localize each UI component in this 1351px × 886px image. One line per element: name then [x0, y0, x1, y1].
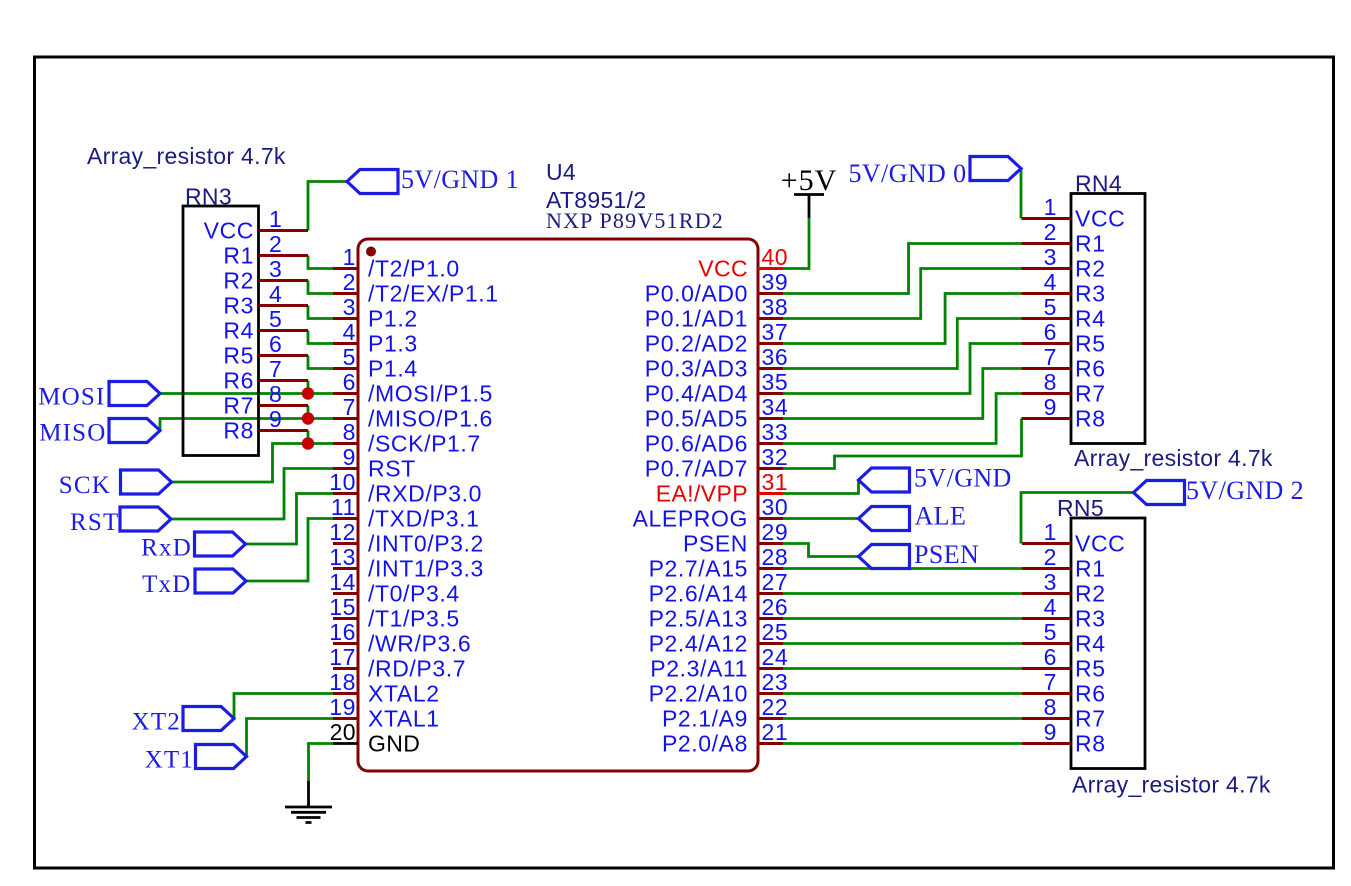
svg-text:XT1: XT1	[145, 747, 194, 774]
RN3 pin 9 (R8)	[223, 406, 308, 444]
U4 pin 28 (P2.7/A15)	[649, 544, 789, 582]
U4 pin 16 (/WR/P3.6)	[329, 619, 471, 657]
svg-text:4: 4	[269, 281, 282, 307]
svg-text:5V/GND: 5V/GND	[914, 464, 1012, 493]
U4 pin 32 (P0.7/AD7)	[645, 444, 789, 482]
RN4 pin 4 (R3)	[1022, 269, 1106, 307]
svg-text:4: 4	[343, 319, 356, 345]
svg-text:34: 34	[762, 394, 789, 420]
svg-text:P0.4/AD4: P0.4/AD4	[645, 381, 748, 407]
flag RST	[70, 507, 171, 536]
U4 pin 20 (GND)	[330, 719, 421, 757]
U4 pin 25 (P2.4/A12)	[649, 619, 789, 657]
svg-text:RxD: RxD	[141, 535, 192, 562]
svg-text:3: 3	[343, 294, 356, 320]
RN3 pin 7 (R6)	[223, 356, 308, 394]
svg-text:19: 19	[329, 694, 356, 720]
RN3 pin 5 (R4)	[223, 306, 308, 344]
svg-text:/T2/EX/P1.1: /T2/EX/P1.1	[368, 281, 499, 307]
svg-text:/MOSI/P1.5: /MOSI/P1.5	[368, 381, 493, 407]
svg-text:/RD/P3.7: /RD/P3.7	[368, 656, 466, 682]
svg-text:P2.4/A12: P2.4/A12	[649, 631, 748, 657]
U4 pin 14 (/T0/P3.4)	[329, 569, 460, 607]
wire XT2 flag to U4 pin 18	[234, 694, 333, 719]
svg-text:8: 8	[1044, 694, 1057, 720]
svg-text:9: 9	[1044, 394, 1057, 420]
U4 pin 4 (P1.3)	[333, 319, 418, 357]
flag 5V/GND 0	[848, 157, 1021, 189]
wire ground lead (black)	[307, 781, 310, 806]
svg-text:29: 29	[762, 519, 789, 545]
svg-text:RN3: RN3	[185, 184, 232, 210]
svg-text:4: 4	[1044, 269, 1057, 295]
flag XT1	[145, 745, 247, 774]
svg-text:R3: R3	[1075, 281, 1106, 307]
svg-text:5V/GND 0: 5V/GND 0	[848, 159, 966, 188]
svg-text:R1: R1	[223, 243, 254, 269]
svg-text:R2: R2	[223, 268, 254, 294]
svg-text:P2.3/A11: P2.3/A11	[650, 656, 748, 682]
svg-text:40: 40	[762, 244, 788, 270]
svg-text:28: 28	[762, 544, 789, 570]
svg-text:VCC: VCC	[698, 256, 748, 282]
svg-text:RST: RST	[70, 509, 119, 536]
wire RN3 pin 8 to U4 pin 7	[308, 406, 333, 419]
svg-text:/MISO/P1.6: /MISO/P1.6	[368, 406, 493, 432]
RN4 pin 5 (R4)	[1022, 294, 1106, 332]
svg-text:P2.2/A10: P2.2/A10	[649, 681, 748, 707]
U4 pin 10 (/RXD/P3.0)	[329, 469, 482, 507]
U4 pin 13 (/INT1/P3.3)	[329, 544, 484, 582]
U4 pin 37 (P0.2/AD2)	[645, 319, 789, 357]
svg-text:VCC: VCC	[204, 218, 254, 244]
U4 pin 22 (P2.1/A9)	[662, 694, 788, 732]
svg-text:27: 27	[762, 569, 789, 595]
wire U4 pin 24 to RN5 pin 6	[783, 667, 1022, 670]
wire RST flag to U4 pin 9	[171, 469, 333, 520]
svg-text:P1.3: P1.3	[368, 331, 418, 357]
wire U4 pin 34 to RN4 pin 7	[783, 369, 1022, 419]
svg-text:R2: R2	[1075, 581, 1106, 607]
svg-text:R5: R5	[223, 343, 254, 369]
svg-text:25: 25	[762, 619, 789, 645]
svg-text:NXP P89V51RD2: NXP P89V51RD2	[546, 208, 724, 233]
wire U4 pin 38 to RN4 pin 3	[783, 269, 1022, 319]
svg-text:R7: R7	[223, 393, 254, 419]
wire RN3 pin 2 to U4 pin 1	[308, 256, 333, 269]
wire RN3 pin 5 to U4 pin 4	[308, 331, 333, 344]
power symbol +5V	[781, 164, 838, 218]
flag PSEN	[859, 540, 980, 569]
U4 pin 26 (P2.5/A13)	[649, 594, 789, 632]
svg-text:R1: R1	[1075, 231, 1106, 257]
wire flag 5V/GND 0 to RN4 pin 1	[1020, 169, 1023, 219]
flag MOSI	[38, 382, 160, 411]
svg-text:14: 14	[329, 569, 356, 595]
svg-text:EA!/VPP: EA!/VPP	[656, 481, 748, 507]
U4 pin 29 (PSEN)	[683, 519, 788, 557]
svg-text:R8: R8	[1075, 731, 1106, 757]
wire RN3 pin 6 to U4 pin 5	[308, 356, 333, 369]
RN5 pin 7 (R6)	[1022, 669, 1106, 707]
svg-text:XT2: XT2	[132, 709, 181, 736]
svg-text:31: 31	[762, 469, 788, 495]
svg-text:4: 4	[1044, 594, 1057, 620]
U4 pin 1 (/T2/P1.0)	[333, 244, 460, 282]
RN5 pin 5 (R4)	[1022, 619, 1106, 657]
svg-text:21: 21	[762, 719, 789, 745]
svg-text:/RXD/P3.0: /RXD/P3.0	[368, 481, 482, 507]
flag SCK	[59, 470, 172, 499]
wire flag 5V/GND 2 to RN5 pin 1	[1021, 493, 1134, 544]
RN5 pin 4 (R3)	[1022, 594, 1106, 632]
svg-text:32: 32	[762, 444, 789, 470]
svg-text:/T2/P1.0: /T2/P1.0	[368, 256, 460, 282]
svg-text:15: 15	[329, 594, 356, 620]
wire U4 pin 32 to RN4 pin 9	[783, 419, 1022, 469]
svg-text:/INT0/P3.2: /INT0/P3.2	[368, 531, 484, 557]
wire RxD flag to U4 pin 10	[246, 494, 334, 545]
wire RN3 pin 4 to U4 pin 3	[308, 306, 333, 319]
svg-text:/SCK/P1.7: /SCK/P1.7	[368, 431, 481, 457]
U4 pin 24 (P2.3/A11)	[650, 644, 788, 682]
svg-text:R6: R6	[1075, 681, 1106, 707]
svg-text:26: 26	[762, 594, 789, 620]
svg-text:R7: R7	[1075, 706, 1106, 732]
wire U4 pin 33 to RN4 pin 8	[783, 394, 1022, 444]
RN4 pin 1 (VCC)	[1022, 194, 1126, 232]
svg-text:XTAL2: XTAL2	[368, 681, 440, 707]
RN4 pin 6 (R5)	[1022, 319, 1106, 357]
U4 pin 11 (/TXD/P3.1)	[331, 494, 480, 532]
U4 pin 17 (/RD/P3.7)	[329, 644, 466, 682]
svg-text:P1.4: P1.4	[368, 356, 418, 382]
U4 pin 23 (P2.2/A10)	[649, 669, 789, 707]
U4 pin 31 (EA!/VPP)	[656, 469, 788, 507]
svg-text:1: 1	[269, 206, 282, 232]
wire SCK flag to node at U4 pin 8	[172, 444, 309, 483]
svg-text:PSEN: PSEN	[683, 531, 748, 557]
svg-text:TxD: TxD	[142, 571, 191, 598]
svg-text:GND: GND	[368, 731, 420, 757]
wire MISO flag to node at U4 pin 7	[160, 419, 308, 431]
wire RN3 pin 7 to U4 pin 6	[308, 381, 333, 394]
svg-text:ALEPROG: ALEPROG	[633, 506, 748, 532]
svg-text:6: 6	[343, 369, 356, 395]
wire U4 pin 29 to flag PSEN	[782, 544, 859, 557]
wire U4 pin 25 to RN5 pin 5	[783, 642, 1022, 645]
svg-text:7: 7	[269, 356, 282, 382]
RN5 pin 2 (R1)	[1022, 544, 1106, 582]
svg-text:39: 39	[762, 269, 789, 295]
svg-text:P1.2: P1.2	[368, 306, 418, 332]
U4 pin 15 (/T1/P3.5)	[329, 594, 460, 632]
svg-text:9: 9	[1044, 719, 1057, 745]
RN5 pin 3 (R2)	[1022, 569, 1106, 607]
junction node MISO	[302, 412, 314, 424]
resistor network RN4 body	[1071, 194, 1145, 444]
svg-text:RST: RST	[368, 456, 416, 482]
svg-text:/TXD/P3.1: /TXD/P3.1	[368, 506, 480, 532]
svg-text:MOSI: MOSI	[38, 384, 105, 411]
svg-text:P0.2/AD2: P0.2/AD2	[645, 331, 748, 357]
wire U4 pin 27 to RN5 pin 3	[783, 592, 1022, 595]
svg-text:/T1/P3.5: /T1/P3.5	[368, 606, 460, 632]
wire U4 pin 37 to RN4 pin 4	[783, 294, 1022, 344]
svg-text:U4: U4	[546, 159, 576, 185]
svg-text:R1: R1	[1075, 556, 1106, 582]
svg-text:+5V: +5V	[781, 164, 838, 197]
svg-text:10: 10	[329, 469, 356, 495]
svg-text:R8: R8	[223, 418, 254, 444]
svg-text:XTAL1: XTAL1	[368, 706, 440, 732]
U4 pin 33 (P0.6/AD6)	[645, 419, 789, 457]
RN3 pin 1 (VCC)	[204, 206, 308, 244]
svg-text:ALE: ALE	[915, 502, 967, 531]
wire RN3 pin 9 to U4 pin 8	[308, 431, 333, 444]
svg-text:2: 2	[1044, 219, 1057, 245]
svg-text:R5: R5	[1075, 331, 1106, 357]
svg-text:R4: R4	[223, 318, 254, 344]
svg-text:PSEN: PSEN	[914, 540, 979, 569]
svg-text:11: 11	[331, 494, 356, 520]
svg-text:12: 12	[329, 519, 356, 545]
RN5 pin 6 (R5)	[1022, 644, 1106, 682]
svg-text:P0.7/AD7: P0.7/AD7	[645, 456, 748, 482]
svg-text:Array_resistor 4.7k: Array_resistor 4.7k	[1072, 772, 1271, 798]
svg-text:5: 5	[269, 306, 282, 332]
svg-text:8: 8	[1044, 369, 1057, 395]
flag ALE	[859, 502, 967, 531]
svg-text:1: 1	[1044, 519, 1057, 545]
svg-text:R3: R3	[223, 293, 254, 319]
svg-text:5V/GND 1: 5V/GND 1	[401, 165, 519, 194]
svg-text:P2.0/A8: P2.0/A8	[662, 731, 748, 757]
svg-text:R4: R4	[1075, 631, 1106, 657]
U4 pin 36 (P0.3/AD3)	[645, 344, 789, 382]
U4 pin 8 (/SCK/P1.7)	[333, 419, 481, 457]
svg-text:SCK: SCK	[59, 472, 111, 499]
svg-text:3: 3	[1044, 244, 1057, 270]
svg-text:/INT1/P3.3: /INT1/P3.3	[368, 556, 484, 582]
svg-text:2: 2	[1044, 544, 1057, 570]
junction node SCK	[302, 437, 314, 449]
RN3 pin 3 (R2)	[223, 256, 308, 294]
U4 pin 3 (P1.2)	[333, 294, 418, 332]
U4 pin 40 (VCC)	[698, 244, 788, 282]
svg-text:R3: R3	[1075, 606, 1106, 632]
svg-text:17: 17	[329, 644, 356, 670]
U4 pin 39 (P0.0/AD0)	[645, 269, 789, 307]
U4 pin 5 (P1.4)	[333, 344, 418, 382]
svg-text:P0.0/AD0: P0.0/AD0	[645, 281, 748, 307]
svg-text:7: 7	[1044, 344, 1057, 370]
wire U4 pin 21 to RN5 pin 9	[783, 742, 1022, 745]
RN4 pin 2 (R1)	[1022, 219, 1106, 257]
svg-text:P0.1/AD1: P0.1/AD1	[645, 306, 748, 332]
svg-text:Array_resistor 4.7k: Array_resistor 4.7k	[87, 143, 286, 169]
flag RxD	[141, 532, 245, 562]
svg-text:18: 18	[329, 669, 356, 695]
svg-text:1: 1	[343, 244, 356, 270]
wire U4 pin 20 (GND) to ground	[309, 744, 334, 782]
wire U4 pin 28 to RN5 pin 2	[783, 567, 1022, 570]
svg-text:/T0/P3.4: /T0/P3.4	[368, 581, 460, 607]
svg-text:R7: R7	[1075, 381, 1106, 407]
U4 pin 21 (P2.0/A8)	[662, 719, 788, 757]
svg-text:22: 22	[762, 694, 789, 720]
svg-text:9: 9	[269, 406, 282, 432]
wire RN3 pin 3 to U4 pin 2	[308, 281, 333, 294]
wire U4 pin 35 to RN4 pin 6	[783, 344, 1022, 394]
svg-text:37: 37	[762, 319, 789, 345]
svg-text:VCC: VCC	[1075, 206, 1125, 232]
U4 pin 9 (RST)	[333, 444, 416, 482]
svg-text:3: 3	[1044, 569, 1057, 595]
U4 pin 19 (XTAL1)	[329, 694, 439, 732]
svg-text:6: 6	[1044, 319, 1057, 345]
flag 5V/GND	[859, 464, 1012, 493]
RN3 pin 2 (R1)	[223, 231, 308, 269]
RN4 pin 7 (R6)	[1022, 344, 1106, 382]
svg-text:36: 36	[762, 344, 789, 370]
flag 5V/GND 1	[347, 165, 519, 194]
svg-text:P0.6/AD6: P0.6/AD6	[645, 431, 748, 457]
wire U4 pin 23 to RN5 pin 7	[783, 692, 1022, 695]
wire U4 pin 26 to RN5 pin 4	[783, 617, 1022, 620]
svg-text:20: 20	[330, 719, 356, 745]
svg-text:5: 5	[343, 344, 356, 370]
wire U4 pin 39 to RN4 pin 2	[783, 244, 1022, 294]
RN5 pin 9 (R8)	[1022, 719, 1106, 757]
junction node MOSI	[302, 387, 314, 399]
svg-text:6: 6	[269, 331, 282, 357]
flag XT2	[132, 707, 234, 736]
IC U4 body (microcontroller AT8951/2)	[358, 239, 758, 771]
RN3 pin 8 (R7)	[223, 381, 308, 419]
svg-text:2: 2	[343, 269, 356, 295]
svg-text:P0.3/AD3: P0.3/AD3	[645, 356, 748, 382]
U4 pin 35 (P0.4/AD4)	[645, 369, 789, 407]
U4 pin-1 marker dot	[366, 247, 376, 257]
svg-text:23: 23	[762, 669, 789, 695]
svg-text:R5: R5	[1075, 656, 1106, 682]
RN3 pin 6 (R5)	[223, 331, 308, 369]
flag TxD	[142, 569, 246, 598]
RN5 pin 1 (VCC)	[1022, 519, 1125, 557]
svg-text:P2.7/A15: P2.7/A15	[649, 556, 748, 582]
U4 pin 27 (P2.6/A14)	[649, 569, 789, 607]
wire U4 pin 40 (VCC) to +5V	[783, 218, 809, 269]
flag 5V/GND 2	[1134, 476, 1305, 505]
resistor network RN5 body	[1071, 518, 1145, 769]
svg-text:38: 38	[762, 294, 789, 320]
svg-text:8: 8	[343, 419, 356, 445]
resistor network RN3 body	[183, 206, 259, 456]
svg-text:R4: R4	[1075, 306, 1106, 332]
svg-text:5: 5	[1044, 294, 1057, 320]
U4 pin 2 (/T2/EX/P1.1)	[333, 269, 499, 307]
U4 pin 6 (/MOSI/P1.5)	[333, 369, 493, 407]
wire U4 pin 22 to RN5 pin 8	[783, 717, 1022, 720]
svg-text:16: 16	[329, 619, 356, 645]
wire MOSI flag to node at U4 pin 6	[160, 392, 308, 395]
U4 pin 30 (ALEPROG)	[633, 494, 789, 532]
svg-text:P2.5/A13: P2.5/A13	[649, 606, 748, 632]
svg-text:8: 8	[269, 381, 282, 407]
svg-text:MISO: MISO	[39, 420, 106, 447]
U4 pin 7 (/MISO/P1.6)	[333, 394, 493, 432]
svg-text:35: 35	[762, 369, 789, 395]
svg-text:1: 1	[1044, 194, 1057, 220]
svg-text:7: 7	[1044, 669, 1057, 695]
RN4 pin 9 (R8)	[1022, 394, 1106, 432]
svg-text:R6: R6	[1075, 356, 1106, 382]
svg-text:R6: R6	[223, 368, 254, 394]
wire RN3 pin 1 (VCC) to flag 5V/GND 1	[308, 182, 347, 231]
svg-text:P0.5/AD5: P0.5/AD5	[645, 406, 748, 432]
wire U4 pin 31 to flag 5V/GND	[783, 480, 859, 494]
svg-text:6: 6	[1044, 644, 1057, 670]
wire U4 pin 30 to flag ALE	[783, 517, 859, 520]
svg-text:R8: R8	[1075, 406, 1106, 432]
ground symbol	[285, 807, 332, 823]
wire U4 pin 36 to RN4 pin 5	[783, 319, 1022, 369]
U4 pin 34 (P0.5/AD5)	[645, 394, 789, 432]
svg-text:R2: R2	[1075, 256, 1106, 282]
wire XT1 flag to U4 pin 19	[247, 719, 334, 757]
svg-text:5V/GND 2: 5V/GND 2	[1186, 476, 1304, 505]
svg-text:9: 9	[343, 444, 356, 470]
svg-text:2: 2	[269, 231, 282, 257]
RN4 pin 3 (R2)	[1022, 244, 1106, 282]
svg-text:Array_resistor 4.7k: Array_resistor 4.7k	[1074, 445, 1273, 471]
RN4 pin 8 (R7)	[1022, 369, 1106, 407]
svg-text:30: 30	[762, 494, 789, 520]
svg-text:VCC: VCC	[1075, 531, 1125, 557]
U4 pin 12 (/INT0/P3.2)	[329, 519, 484, 557]
svg-text:P2.6/A14: P2.6/A14	[649, 581, 748, 607]
svg-text:RN4: RN4	[1075, 171, 1122, 197]
wire TxD flag to U4 pin 11	[246, 519, 333, 582]
RN3 pin 4 (R3)	[223, 281, 308, 319]
svg-text:RN5: RN5	[1057, 495, 1104, 521]
svg-text:13: 13	[329, 544, 356, 570]
svg-text:3: 3	[269, 256, 282, 282]
flag MISO	[39, 419, 160, 447]
RN5 pin 8 (R7)	[1022, 694, 1106, 732]
svg-text:7: 7	[343, 394, 356, 420]
svg-text:/WR/P3.6: /WR/P3.6	[368, 631, 471, 657]
U4 pin 38 (P0.1/AD1)	[645, 294, 789, 332]
svg-text:P2.1/A9: P2.1/A9	[662, 706, 748, 732]
U4 pin 18 (XTAL2)	[329, 669, 439, 707]
svg-text:5: 5	[1044, 619, 1057, 645]
svg-text:33: 33	[762, 419, 789, 445]
svg-text:24: 24	[762, 644, 789, 670]
